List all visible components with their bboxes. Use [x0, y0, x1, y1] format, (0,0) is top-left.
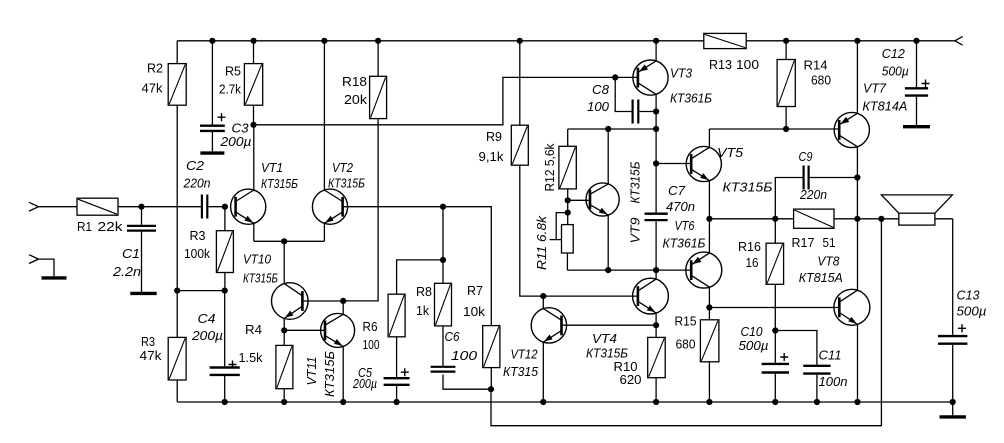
svg-text:VT2: VT2	[332, 160, 354, 175]
transistor VT7 KT814A (PNP)	[834, 112, 869, 147]
capacitor C11 100n	[775, 331, 817, 365]
svg-text:C13: C13	[957, 288, 981, 303]
svg-text:16: 16	[746, 255, 759, 270]
capacitor C12 500u (rail decoupling)	[916, 41, 918, 87]
svg-text:КТ814А: КТ814А	[862, 99, 907, 114]
svg-text:C7: C7	[668, 183, 686, 198]
svg-text:100: 100	[736, 57, 759, 72]
svg-text:КТ315Б: КТ315Б	[261, 176, 298, 191]
node: C9/R16 tap	[772, 216, 778, 222]
svg-text:R3: R3	[141, 334, 155, 349]
resistor R3 47k (lower)	[176, 291, 178, 338]
capacitor C4 200u	[224, 291, 226, 367]
svg-text:200µ: 200µ	[352, 376, 377, 391]
svg-text:10k: 10k	[463, 304, 486, 319]
svg-text:220n: 220n	[799, 187, 827, 202]
svg-text:R7: R7	[467, 283, 483, 298]
svg-text:R13: R13	[709, 57, 732, 72]
wire: input to R1	[39, 206, 78, 208]
resistor R10 620	[655, 325, 657, 337]
svg-text:R14: R14	[804, 58, 828, 73]
svg-text:20k: 20k	[344, 92, 368, 107]
svg-text:C1: C1	[122, 246, 140, 261]
wire: R1 to C2	[118, 206, 201, 208]
wire: VT1/VT2 emitter row	[254, 240, 325, 242]
node: C8 to VT3 collector	[653, 108, 659, 114]
svg-text:500µ: 500µ	[957, 304, 987, 319]
node: R12 bottom / VT9 base	[565, 197, 571, 203]
wire: VT10 emitter to VT11 base	[284, 329, 325, 331]
capacitor C1 2.2n	[141, 207, 143, 225]
svg-text:R17: R17	[792, 235, 815, 250]
node: R6 branch	[440, 257, 446, 263]
supply connector arrow (top right)	[955, 36, 963, 45]
resistor R7 10k	[483, 326, 500, 368]
capacitor C8 100	[615, 77, 631, 111]
svg-text:VT8: VT8	[817, 254, 840, 269]
loudspeaker	[899, 213, 935, 225]
capacitor C10 500u	[774, 331, 776, 363]
svg-text:VT12: VT12	[511, 347, 539, 362]
svg-text:R16: R16	[738, 239, 761, 254]
wire: to VT9 base	[568, 199, 590, 201]
svg-text:R2: R2	[147, 61, 163, 76]
node: VT10 base / VT11 collector / R18 bottom	[340, 298, 346, 304]
svg-text:R15: R15	[675, 314, 697, 329]
svg-text:47k: 47k	[142, 81, 163, 96]
resistor R8 1k	[435, 283, 452, 326]
svg-text:R4: R4	[245, 322, 262, 337]
transistor VT3 KT361B (PNP)	[633, 60, 668, 95]
svg-text:22k: 22k	[98, 219, 124, 234]
node: feedback takeoff / C6 / R7	[488, 386, 494, 392]
resistor R6 100	[388, 294, 405, 337]
node: C1 tap junction	[138, 204, 144, 210]
wire: VT3 collector row to R12/VT9	[568, 128, 656, 130]
svg-text:200µ: 200µ	[219, 134, 251, 149]
svg-text:R8: R8	[416, 284, 432, 299]
svg-text:VT3: VT3	[670, 66, 693, 81]
svg-text:КТ315Б: КТ315Б	[628, 161, 643, 203]
wire: bias row to R17	[709, 218, 793, 220]
transistor VT9 KT315B	[586, 183, 619, 216]
svg-text:C4: C4	[198, 311, 216, 326]
svg-text:C10: C10	[741, 324, 764, 339]
wire: branch to R6	[397, 260, 443, 294]
svg-text:2.2n: 2.2n	[112, 264, 141, 279]
node: R14 bottom	[783, 126, 789, 132]
node: VT2 base / R8 / R7 junction	[440, 204, 446, 210]
svg-text:C6: C6	[445, 329, 461, 344]
node: emitter row / VT10 collector	[281, 238, 287, 244]
svg-text:КТ315Б: КТ315Б	[328, 176, 365, 191]
resistor R4 1.5k	[283, 330, 285, 345]
resistor R15 680	[708, 308, 710, 320]
svg-text:C12: C12	[882, 46, 906, 61]
capacitor C7 470n	[645, 213, 668, 215]
junction dots on bottom ground rail	[222, 399, 228, 405]
svg-text:1.5k: 1.5k	[239, 350, 263, 365]
node: feedback tap on output	[878, 216, 884, 222]
node: VT10 emitter / VT11 base / R4	[281, 327, 287, 333]
node: VT9 emitter	[605, 267, 611, 273]
resistor R11 6.8k (trimmer)	[562, 225, 574, 253]
svg-text:VT5: VT5	[717, 145, 744, 160]
transistor VT2 KT315B (mirrored)	[312, 189, 347, 224]
transistor VT11 KT315B	[321, 313, 355, 347]
node: VT5/VT6 emitters on output bias row	[706, 216, 712, 222]
wire: node down to R8 and over to R7	[443, 207, 491, 326]
node: VT4 emitter / VT12 base / R10	[653, 322, 659, 328]
svg-text:680: 680	[676, 337, 696, 352]
ground bar under C3	[200, 151, 224, 154]
transistor VT5 KT315B	[686, 146, 721, 181]
transistor VT4 KT315B	[633, 278, 669, 314]
wire: VT1 collector node to VT3 base	[254, 77, 638, 124]
wire: feedback loop to output	[491, 219, 881, 426]
svg-text:C2: C2	[186, 158, 205, 173]
resistor R17 51	[794, 209, 834, 228]
svg-text:VT6: VT6	[675, 218, 696, 233]
node: C8 tap on VT3 base wire	[612, 74, 618, 80]
wire: R11 wiper jog	[556, 213, 568, 240]
svg-text:VT4: VT4	[592, 331, 617, 346]
svg-text:500µ: 500µ	[882, 64, 909, 79]
svg-text:470n: 470n	[666, 199, 695, 214]
resistor R12 5.6k	[567, 129, 569, 146]
node: row joins VT3 collector line	[653, 126, 659, 132]
svg-text:9,1k: 9,1k	[479, 149, 505, 164]
node: C7 bottom / VT4 collector	[653, 267, 659, 273]
svg-text:КТ815А: КТ815А	[799, 270, 843, 285]
capacitor C3 200u (rail decoupling)	[211, 41, 213, 125]
svg-text:КТ315Б: КТ315Б	[243, 271, 278, 286]
node: VT5 base tap	[653, 160, 659, 166]
svg-text:VT9: VT9	[628, 218, 643, 244]
resistor R16 16	[774, 219, 776, 243]
svg-text:C9: C9	[799, 149, 813, 164]
wire: VT8 base row	[706, 304, 712, 310]
wire: VT2 base to R8/R7 node	[343, 206, 443, 208]
svg-text:2.7k: 2.7k	[219, 82, 241, 97]
resistor R13 100 (series in supply rail)	[704, 33, 746, 48]
svg-text:100: 100	[451, 348, 478, 363]
junction dots on top supply rail	[209, 38, 215, 44]
resistor R9 9.1k	[519, 41, 521, 125]
node: VT12 collector / R9 / VT4 base wire	[540, 293, 546, 299]
ground bar under C12	[903, 125, 930, 128]
svg-text:R5: R5	[225, 64, 241, 79]
wire: R2/R3 divider row	[177, 290, 225, 292]
svg-text:VT1: VT1	[261, 160, 283, 175]
node: R16 / C10 / C11	[772, 327, 778, 333]
node: VT1 collector / R5	[250, 122, 256, 128]
capacitor C2 220n	[201, 195, 203, 219]
resistor R14 680	[785, 41, 787, 60]
svg-text:VT7: VT7	[863, 81, 887, 96]
node: divider right / C4	[222, 288, 228, 294]
svg-text:620: 620	[620, 372, 642, 387]
transistor VT10 KT315B (mirrored)	[272, 283, 309, 320]
transistor VT12 KT315 (mirrored)	[531, 308, 566, 343]
svg-text:220n: 220n	[183, 176, 211, 191]
wire: top supply rail left segment	[177, 40, 704, 42]
svg-text:R6: R6	[363, 319, 378, 334]
resistor R2 47k	[176, 41, 178, 64]
svg-text:200µ: 200µ	[191, 328, 223, 343]
svg-text:R1: R1	[77, 219, 92, 234]
capacitor C5 200u	[384, 377, 410, 379]
transistor VT6 KT361B (PNP)	[686, 252, 722, 288]
wire: to VT4 base	[543, 295, 638, 297]
svg-text:R11 6.8k: R11 6.8k	[534, 214, 549, 270]
node: output column / R17	[854, 216, 860, 222]
node: VT9 collector	[605, 126, 611, 132]
transistor VT8 KT815A	[834, 289, 870, 325]
svg-text:C11: C11	[819, 348, 842, 363]
svg-text:100k: 100k	[184, 246, 210, 261]
svg-text:C8: C8	[592, 82, 610, 97]
svg-text:КТ315: КТ315	[503, 364, 539, 379]
resistor R1 22k	[77, 198, 118, 215]
wire: to VT5 base	[656, 163, 691, 165]
resistor R18 20k	[377, 41, 379, 77]
ground symbol at bottom right	[952, 402, 954, 415]
node: divider left	[174, 288, 180, 294]
wire: top supply rail right segment	[746, 40, 955, 42]
resistor R3 100k	[224, 207, 226, 231]
second input connector arrow	[29, 255, 39, 264]
svg-text:500µ: 500µ	[739, 338, 769, 353]
svg-text:R18: R18	[342, 74, 367, 89]
wire: VT5 collector row to VT7 base	[709, 128, 839, 130]
wire: VT3 collector down / C7 branch	[655, 112, 657, 213]
ground bar at input 2	[42, 276, 67, 279]
input connector arrow	[29, 202, 39, 211]
wire: bottom ground rail	[177, 401, 953, 403]
svg-text:R9: R9	[486, 129, 502, 144]
transistor VT1 KT315B	[231, 189, 266, 224]
svg-text:VT11: VT11	[304, 357, 319, 386]
svg-text:VT10: VT10	[243, 252, 272, 267]
node: VT1 base / C2 / R3	[222, 204, 228, 210]
svg-text:51: 51	[823, 235, 836, 250]
capacitor C9 220n	[775, 178, 802, 219]
svg-text:КТ361Б: КТ361Б	[663, 236, 706, 251]
resistor R5 2.7k	[253, 41, 255, 64]
svg-text:100: 100	[587, 99, 610, 114]
svg-text:R12 5,6k: R12 5,6k	[542, 143, 557, 191]
svg-text:100: 100	[363, 337, 380, 352]
svg-text:680: 680	[811, 73, 831, 88]
capacitor C6 100	[431, 366, 456, 368]
svg-text:R3: R3	[190, 228, 206, 243]
wire: node to R18 bottom	[343, 119, 378, 301]
capacitor C13 500u	[952, 219, 954, 335]
svg-text:1k: 1k	[416, 303, 429, 318]
wire: VT9 emitter row to VT6 base	[567, 269, 691, 271]
node: R11 wiper tap	[565, 210, 571, 216]
svg-text:47k: 47k	[140, 348, 163, 363]
ground bar under C1	[130, 292, 156, 295]
svg-text:100n: 100n	[819, 374, 848, 389]
svg-text:КТ361Б: КТ361Б	[670, 91, 712, 106]
svg-text:КТ315Б: КТ315Б	[723, 180, 774, 195]
wire: output to loudspeaker	[857, 218, 898, 220]
node: C9 right to output column	[854, 174, 860, 180]
wire: input 2 to ground	[39, 259, 55, 276]
svg-text:КТ315Б: КТ315Б	[322, 350, 337, 397]
